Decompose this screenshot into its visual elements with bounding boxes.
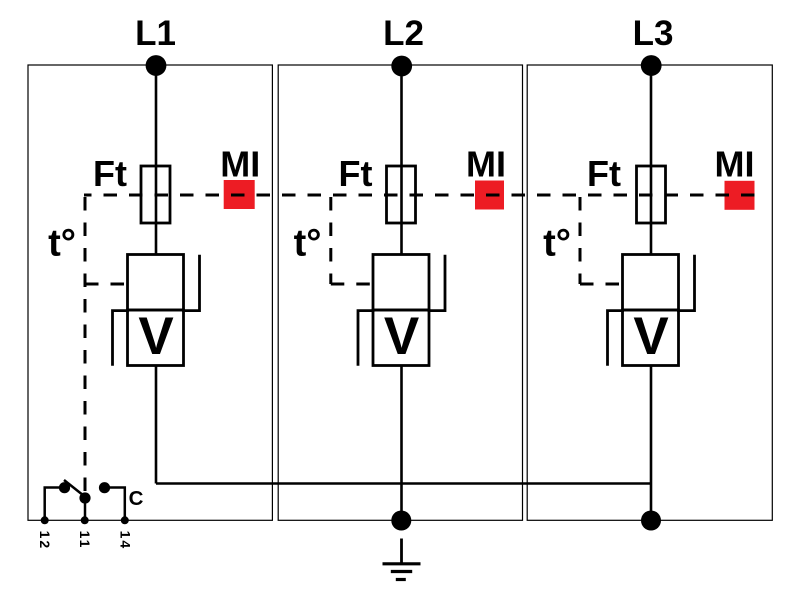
svg-text:Ft: Ft [339, 153, 373, 194]
svg-text:L2: L2 [383, 14, 424, 53]
svg-text:t°: t° [294, 223, 322, 265]
svg-text:C: C [129, 487, 144, 510]
svg-text:L1: L1 [135, 14, 176, 53]
svg-text:t°: t° [543, 223, 571, 265]
svg-text:V: V [384, 307, 419, 366]
svg-text:MI: MI [220, 144, 260, 185]
svg-text:Ft: Ft [587, 153, 621, 194]
svg-text:V: V [633, 307, 668, 366]
svg-text:L3: L3 [633, 14, 674, 53]
svg-text:t°: t° [48, 223, 76, 265]
svg-text:12: 12 [37, 531, 53, 551]
svg-text:V: V [138, 307, 173, 366]
svg-text:MI: MI [715, 144, 755, 185]
svg-text:11: 11 [77, 531, 93, 550]
svg-text:14: 14 [117, 531, 133, 551]
svg-text:MI: MI [466, 144, 506, 185]
svg-text:Ft: Ft [93, 153, 127, 194]
